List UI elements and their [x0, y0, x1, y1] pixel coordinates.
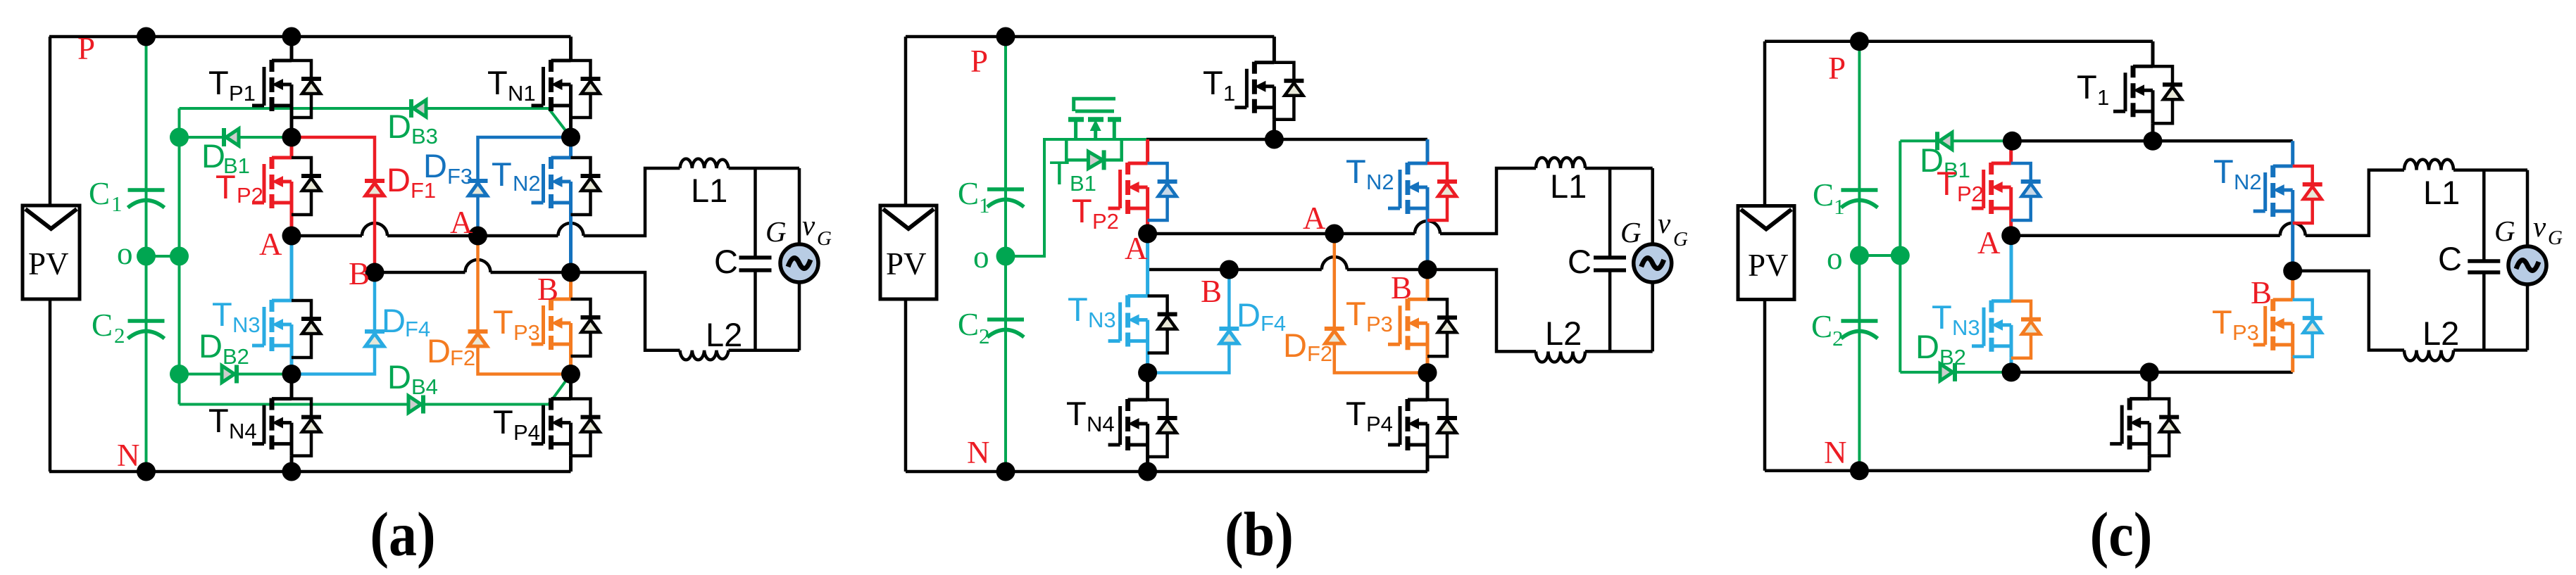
- node o dot (b): [996, 247, 1015, 266]
- svg-text:N4: N4: [1087, 412, 1115, 436]
- junction: TP3-TP4 midpoint (b): [1418, 363, 1437, 382]
- PV source (b): [880, 206, 937, 299]
- diode DB2 (c): [1915, 328, 1966, 381]
- wire: node B line (c): [2293, 271, 2527, 350]
- wire: midpoint bus (c): [2012, 139, 2292, 143]
- wire: green center leg P to N (c): [1858, 42, 1861, 471]
- capacitor C (a): [714, 168, 772, 350]
- mosfet TP1: [208, 37, 321, 137]
- svg-text:1: 1: [2097, 85, 2109, 110]
- svg-text:T: T: [212, 296, 232, 333]
- svg-text:T: T: [2213, 153, 2234, 190]
- mosfet TN2 (b) with red diode: [1346, 139, 1457, 270]
- svg-text:D: D: [382, 302, 406, 339]
- capacitor C2 (b): [958, 307, 1024, 348]
- svg-text:P: P: [77, 31, 95, 66]
- svg-text:B2: B2: [1939, 345, 1966, 369]
- svg-text:(b): (b): [1225, 500, 1294, 569]
- node A (a): [282, 227, 301, 246]
- svg-text:N: N: [967, 435, 990, 470]
- junction: N rail / TN4 source: [282, 462, 301, 481]
- mosfet TP3 (c) with lightblue diode: [2212, 271, 2322, 372]
- svg-text:N4: N4: [229, 419, 257, 443]
- wire: green center leg P to N: [145, 37, 148, 472]
- wire: panel (a) top rail P: [49, 35, 571, 39]
- mosfet TP3 (b): [1346, 270, 1457, 373]
- junction: clamp bus / DB1: [170, 128, 189, 147]
- wire: green DB2 branch (c): [1900, 371, 2011, 374]
- diode DF2 (b): [1283, 234, 1427, 373]
- svg-text:N3: N3: [232, 312, 261, 337]
- mosfet T1 (c): [2077, 42, 2182, 141]
- wire hop: A line over TN2 source: [558, 223, 584, 236]
- wire: panel (b) bottom rail N: [906, 470, 1427, 474]
- svg-text:D: D: [387, 161, 411, 198]
- svg-text:L1: L1: [1550, 168, 1587, 205]
- wire: lightblue from B to TN3 junction: [292, 272, 375, 374]
- junction: TN3 source / DB2 (c): [2002, 362, 2021, 381]
- wire: green center leg P to N (b): [1004, 37, 1007, 472]
- svg-text:B: B: [2251, 275, 2272, 310]
- capacitor C1 (a): [89, 176, 165, 216]
- svg-text:1: 1: [979, 193, 990, 217]
- node o dot right: [170, 247, 189, 266]
- junction: TN1-TN2 midpoint: [561, 128, 580, 147]
- capacitor C (b): [1568, 168, 1626, 351]
- svg-text:(a): (a): [370, 500, 435, 569]
- svg-text:T: T: [493, 403, 513, 441]
- wire: PV (c) leads: [1763, 42, 1767, 471]
- node B mid (b): [1220, 260, 1239, 279]
- svg-text:T: T: [1068, 291, 1088, 328]
- diode DF3: [423, 147, 488, 196]
- svg-text:B: B: [1201, 274, 1222, 309]
- diode DB1 (c): [1920, 132, 1970, 182]
- wire: green bottom clamp line to TP4 junction: [180, 374, 571, 405]
- svg-text:N1: N1: [508, 81, 536, 106]
- wire: node A line (b): [1148, 168, 1653, 234]
- svg-text:N2: N2: [2234, 170, 2262, 194]
- mosfet TP2: [215, 137, 321, 236]
- wire: node B line (b): [1148, 270, 1653, 351]
- svg-text:B: B: [349, 256, 370, 291]
- svg-text:A: A: [1125, 231, 1148, 266]
- svg-text:PV: PV: [1748, 248, 1789, 283]
- svg-text:P2: P2: [1092, 209, 1119, 234]
- svg-text:C: C: [1568, 243, 1592, 280]
- svg-text:PV: PV: [886, 246, 927, 282]
- svg-text:PV: PV: [28, 246, 69, 282]
- svg-text:C: C: [958, 307, 979, 342]
- svg-text:o: o: [973, 239, 989, 274]
- junction: clamp bus / DB2: [170, 365, 189, 384]
- svg-text:A: A: [450, 205, 473, 240]
- svg-text:N: N: [117, 438, 140, 473]
- mosfet TN3 (b): [1068, 234, 1177, 373]
- svg-text:T: T: [1346, 153, 1366, 190]
- node N (a): [117, 438, 156, 481]
- svg-text:D: D: [423, 147, 447, 184]
- svg-text:P3: P3: [1366, 312, 1393, 336]
- svg-text:T: T: [492, 156, 512, 193]
- wire: blue clamp from TN1 junction to A2: [478, 137, 571, 236]
- svg-text:v: v: [2533, 210, 2546, 243]
- PV source (a): [23, 206, 80, 299]
- svg-text:L1: L1: [2423, 174, 2460, 211]
- svg-text:B: B: [537, 272, 558, 307]
- wire: node A line to output: [292, 168, 799, 236]
- diode DB1: [201, 128, 250, 178]
- node A2 (b): [1325, 225, 1344, 244]
- svg-text:T: T: [1066, 395, 1087, 432]
- mosfet TN2: [492, 137, 601, 272]
- svg-text:G: G: [817, 227, 832, 250]
- svg-text:F2: F2: [1307, 341, 1332, 366]
- wire: panel (c) top rail P: [1765, 40, 2153, 44]
- wire: green top clamp line to TN1 junction: [180, 108, 571, 137]
- wire: green DB1 branch: [180, 136, 292, 139]
- AC grid source vG (a): [765, 168, 832, 350]
- wire: node o link (c): [1859, 254, 1900, 257]
- svg-text:F2: F2: [450, 346, 475, 370]
- inductor L1 (b): [1536, 158, 1587, 205]
- mosfet TN4: [208, 374, 321, 472]
- junction: top rail / TP1 drain: [282, 27, 301, 46]
- node B2 (a): [561, 263, 580, 282]
- wire: node A line (c): [2011, 170, 2527, 236]
- svg-text:F4: F4: [1261, 311, 1286, 336]
- mosfet TP4 (b): [1346, 373, 1457, 472]
- diode DF2: [427, 331, 488, 370]
- node A (b): [1138, 225, 1157, 244]
- wire hop: B line over DF2: [465, 260, 491, 272]
- svg-text:G: G: [2494, 215, 2515, 247]
- node A2 (a): [468, 227, 487, 246]
- svg-text:P2: P2: [1957, 182, 1984, 206]
- svg-text:L2: L2: [706, 316, 742, 353]
- svg-text:B: B: [1391, 270, 1412, 305]
- wire: green clamp bus vertical: [178, 108, 181, 405]
- svg-text:D: D: [1283, 327, 1307, 364]
- svg-text:P3: P3: [2232, 320, 2259, 345]
- svg-text:T: T: [1346, 295, 1366, 332]
- capacitor C2 (a): [92, 308, 165, 348]
- svg-text:T: T: [208, 64, 229, 101]
- panel label (a): [370, 500, 435, 569]
- svg-text:P3: P3: [513, 320, 540, 345]
- wire hop: A line over TN2 source (c): [2280, 223, 2306, 236]
- svg-text:o: o: [117, 236, 133, 271]
- svg-text:N2: N2: [1366, 170, 1394, 194]
- inductor L1 (a): [680, 159, 729, 209]
- node P (b): [970, 27, 1015, 80]
- wire hop: A line over TN2 source (b): [1415, 221, 1440, 234]
- svg-text:P: P: [1828, 51, 1846, 86]
- diode DB4: [387, 358, 438, 414]
- mosfet TP2 (b) with blue diode: [1072, 139, 1177, 234]
- svg-text:F3: F3: [447, 164, 473, 189]
- svg-text:D: D: [427, 332, 451, 369]
- mosfet TN2 (c) with red diode: [2213, 141, 2322, 271]
- svg-text:N: N: [1824, 435, 1847, 470]
- junction: T1 source bus (c): [2144, 132, 2163, 151]
- wire: bottom bus (c): [2011, 371, 2293, 374]
- wire: node o branch to TB1: [1006, 139, 1146, 256]
- mosfet TP3: [493, 272, 601, 374]
- capacitor C (c): [2438, 170, 2500, 350]
- wire: panel (c) bottom rail N: [1765, 469, 2149, 473]
- diode DF4: [365, 302, 430, 346]
- mosfet TN1: [487, 37, 601, 137]
- svg-text:T: T: [1072, 192, 1092, 229]
- junction: TP1-TP2 midpoint: [282, 128, 301, 147]
- svg-text:v: v: [802, 209, 815, 241]
- junction: T1 source bus (b): [1265, 130, 1284, 149]
- node N (c): [1824, 435, 1869, 480]
- diode DF4 (b): [1148, 270, 1287, 373]
- mosfet TP4: [493, 374, 601, 472]
- svg-text:N3: N3: [1952, 315, 1980, 340]
- wire hop: A line over DF1: [362, 223, 387, 236]
- svg-text:o: o: [1827, 241, 1843, 276]
- svg-text:L2: L2: [2422, 315, 2459, 352]
- svg-text:N3: N3: [1088, 308, 1116, 332]
- wire: red clamp from TP1 junction to B: [292, 137, 375, 272]
- node o dot left: [137, 247, 156, 266]
- svg-text:P4: P4: [1366, 412, 1393, 436]
- svg-text:1: 1: [111, 191, 123, 216]
- svg-text:P1: P1: [229, 81, 256, 106]
- svg-text:G: G: [1620, 216, 1642, 248]
- junction: TN3-TN4 midpoint: [282, 365, 301, 384]
- wire: node o link: [146, 255, 180, 258]
- svg-text:L1: L1: [691, 172, 727, 209]
- svg-text:A: A: [259, 227, 282, 262]
- node o dot right (c): [1891, 246, 1910, 265]
- svg-text:D: D: [1237, 296, 1261, 334]
- svg-text:C: C: [89, 176, 110, 211]
- svg-text:T: T: [1049, 154, 1070, 191]
- diode DF1: [365, 161, 436, 203]
- svg-text:P4: P4: [513, 420, 540, 445]
- svg-text:T: T: [1346, 395, 1366, 432]
- wire: PV left leads: [49, 37, 52, 472]
- node B (a): [365, 263, 384, 282]
- junction: N rail / TN4 source (b): [1138, 462, 1157, 481]
- diode DB3: [387, 99, 438, 149]
- node P (a): [77, 27, 156, 67]
- svg-text:N2: N2: [513, 171, 541, 196]
- svg-text:C: C: [958, 176, 979, 211]
- junction: bottom fet drain (c): [2140, 362, 2159, 381]
- svg-text:2: 2: [979, 324, 990, 348]
- junction: TP3-TP4 midpoint: [561, 365, 580, 384]
- node N (b): [967, 435, 1015, 481]
- PV source (c): [1738, 206, 1794, 300]
- node B2 (b): [1418, 260, 1437, 279]
- mosfet TN4 (b): [1066, 373, 1177, 472]
- panel label (c): [2090, 500, 2153, 569]
- wire: node B line to output: [375, 272, 799, 350]
- wire: PV (b) leads: [904, 37, 908, 472]
- wire: midpoint bus below T1: [1146, 138, 1427, 141]
- junction: TN3-TN4 midpoint (b): [1138, 363, 1157, 382]
- inductor L1 (c): [2404, 160, 2460, 211]
- svg-text:C: C: [1813, 177, 1834, 213]
- svg-text:B2: B2: [223, 344, 249, 369]
- svg-text:1: 1: [1223, 81, 1235, 106]
- svg-text:T: T: [2077, 68, 2097, 106]
- mosfet TN3: [212, 236, 321, 374]
- capacitor C1 (b): [958, 176, 1024, 217]
- svg-text:G: G: [2548, 227, 2563, 249]
- svg-text:P: P: [970, 44, 988, 79]
- wire: panel (b) top rail P: [906, 35, 1274, 39]
- svg-text:T: T: [2212, 303, 2232, 341]
- mosfet TB1 (bidirectional switch): [1049, 99, 1122, 196]
- inductor L2 (c): [2404, 315, 2459, 361]
- wire: green DB2 branch: [180, 373, 292, 376]
- node P (c): [1828, 32, 1869, 86]
- inductor L2 (a): [680, 316, 743, 360]
- svg-text:D: D: [387, 108, 411, 145]
- svg-text:2: 2: [114, 323, 125, 348]
- svg-text:T: T: [208, 402, 229, 439]
- diode DB2: [199, 327, 249, 384]
- inductor L2 (b): [1536, 315, 1585, 362]
- AC grid source vG (c): [2494, 170, 2563, 350]
- mosfet bottom (c): [2110, 372, 2179, 471]
- svg-text:C: C: [714, 243, 738, 280]
- svg-text:B3: B3: [411, 124, 438, 149]
- svg-text:G: G: [1673, 228, 1688, 251]
- svg-text:T: T: [493, 303, 513, 341]
- capacitor C2 (c): [1811, 309, 1877, 350]
- junction: DB1 / TP2 drain (c): [2003, 132, 2022, 151]
- svg-text:C: C: [2438, 240, 2462, 277]
- mosfet T1 (b): [1203, 37, 1303, 139]
- svg-text:T: T: [1937, 165, 1957, 202]
- capacitor C1 (c): [1813, 177, 1877, 219]
- svg-text:D: D: [387, 358, 411, 396]
- panel label (b): [1225, 500, 1294, 569]
- node A (c): [2001, 226, 2020, 245]
- mosfet TP2 (c) with blue diode: [1937, 141, 2041, 235]
- svg-text:T: T: [215, 168, 236, 206]
- wire: panel (a) bottom rail N: [49, 470, 571, 474]
- wire: green DB1 branch (c): [1900, 139, 2012, 142]
- node o dot left (c): [1850, 246, 1869, 265]
- node B (c): [2283, 261, 2302, 280]
- svg-text:1: 1: [1834, 194, 1845, 219]
- svg-text:C: C: [1811, 309, 1832, 344]
- svg-text:L2: L2: [1545, 315, 1582, 352]
- svg-text:C: C: [92, 308, 113, 343]
- svg-text:G: G: [765, 215, 787, 248]
- svg-text:(c): (c): [2090, 500, 2153, 569]
- svg-text:P2: P2: [237, 183, 263, 208]
- svg-text:T: T: [1932, 298, 1952, 336]
- mosfet TN3 (c) with orange diode: [1932, 236, 2041, 372]
- svg-text:T: T: [1203, 64, 1223, 101]
- svg-text:B4: B4: [411, 374, 438, 399]
- svg-text:T: T: [487, 64, 508, 101]
- wire: green clamp vertical (c): [1899, 141, 1901, 372]
- wire: orange from A2 to TP3 junction: [478, 236, 571, 374]
- svg-text:A: A: [1977, 225, 2001, 260]
- svg-text:2: 2: [1832, 326, 1844, 350]
- AC grid source vG (b): [1620, 168, 1688, 351]
- wire hop: B line over DF2 (b): [1322, 257, 1347, 270]
- svg-text:v: v: [1658, 207, 1671, 239]
- svg-text:A: A: [1303, 201, 1326, 236]
